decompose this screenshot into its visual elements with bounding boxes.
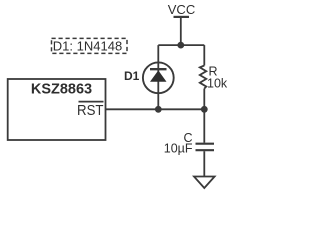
wire capacitor to ground <box>203 151 205 176</box>
svg-text:10µF: 10µF <box>164 142 193 156</box>
svg-text:10k: 10k <box>207 76 228 90</box>
diode D1 triangle <box>150 70 167 81</box>
capacitor C bottom plate <box>196 149 215 151</box>
wire left branch through diode <box>157 45 159 109</box>
IC U1 KSZ8863 box <box>8 79 106 140</box>
junction at VCC node <box>177 42 184 49</box>
svg-text:VCC: VCC <box>168 2 195 17</box>
wire top horizontal (VCC node) <box>158 44 204 46</box>
junction resistor-RST <box>201 106 208 113</box>
capacitor C top plate <box>196 143 215 145</box>
svg-text:D1: D1 <box>124 69 140 83</box>
wire RST net horizontal <box>106 108 205 110</box>
svg-text:KSZ8863: KSZ8863 <box>31 82 92 98</box>
diode D1 circle <box>143 62 174 93</box>
wire VCC down to junction <box>180 17 182 45</box>
svg-text:RST: RST <box>77 102 104 119</box>
ground symbol <box>194 177 215 189</box>
svg-text:D1: 1N4148: D1: 1N4148 <box>53 39 122 54</box>
wire resistor bottom <box>203 89 205 110</box>
resistor R zigzag <box>200 66 207 89</box>
note box D1: 1N4148 (dashed) <box>52 38 128 53</box>
wire RST node down to capacitor <box>203 109 205 142</box>
junction diode-RST <box>155 106 162 113</box>
VCC terminal bar <box>174 16 190 18</box>
wire right branch to resistor <box>203 45 205 65</box>
overline of RST <box>79 101 104 103</box>
diode D1 cathode bar <box>150 68 167 70</box>
